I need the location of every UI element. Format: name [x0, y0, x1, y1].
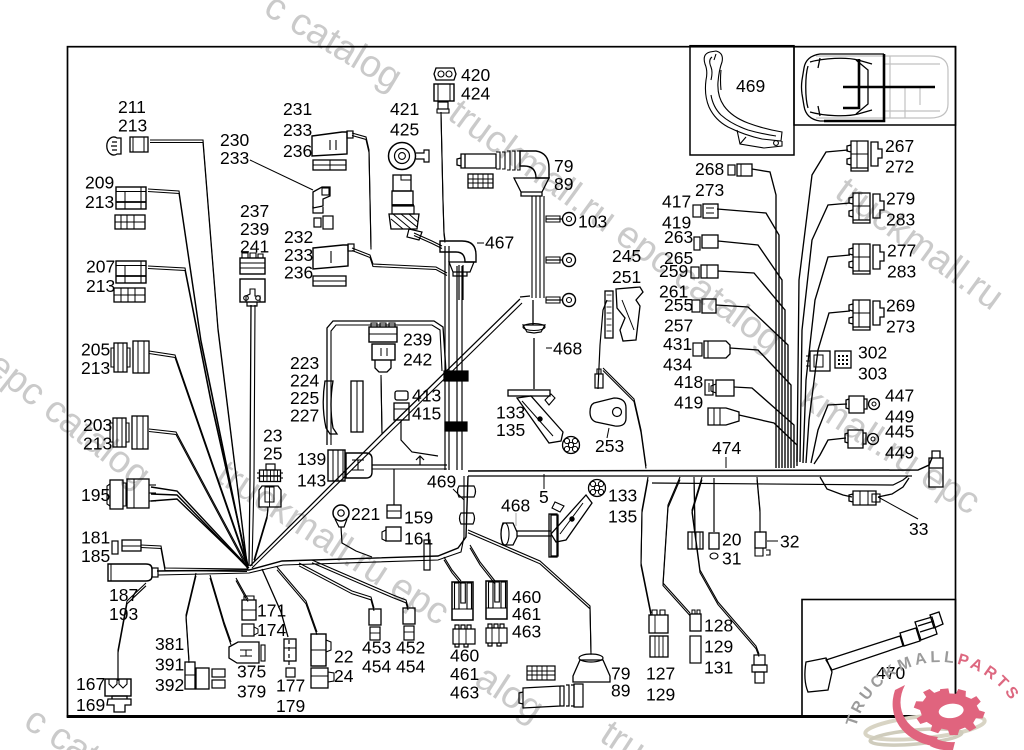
connector 263/265	[694, 237, 700, 250]
connector 161	[386, 527, 401, 541]
svg-text:259: 259	[659, 261, 688, 281]
232 plate	[313, 276, 346, 286]
wire trunk top line	[468, 458, 932, 471]
svg-text:143: 143	[297, 471, 326, 491]
468 lower mount plate 2	[424, 540, 430, 570]
133/135 lower clamp	[551, 495, 592, 542]
421 body	[393, 175, 411, 191]
leader line 468 upper	[546, 347, 552, 349]
421 tip	[407, 229, 422, 240]
svg-text:129: 129	[704, 637, 733, 657]
wire trunk bottom line	[468, 475, 912, 477]
svg-text:79: 79	[554, 156, 573, 176]
coil connector 232/233/236	[313, 245, 348, 269]
svg-text:89: 89	[611, 681, 630, 701]
svg-text:209: 209	[85, 173, 114, 193]
svg-text:169: 169	[76, 695, 105, 715]
svg-text:277: 277	[887, 241, 916, 261]
trunk end connector right	[929, 451, 943, 487]
79/89 funnel top	[514, 178, 549, 196]
harness bulge below trunk junction	[458, 486, 476, 497]
wire 203 harness run (double)	[149, 429, 248, 567]
wire V1 line 1	[448, 246, 450, 470]
svg-text:103: 103	[578, 212, 607, 232]
wire 209 harness run (double)	[148, 189, 247, 564]
main border frame	[68, 47, 956, 717]
svg-text:185: 185	[81, 546, 110, 566]
svg-text:32: 32	[780, 532, 799, 552]
svg-text:213: 213	[85, 192, 114, 212]
133/135 lower wheel	[589, 480, 606, 497]
relay connector 207/213	[116, 261, 146, 283]
wire 468 stem bottom	[533, 338, 535, 389]
wire 7989 bundle 0	[531, 196, 533, 298]
svg-text:213: 213	[118, 116, 147, 136]
svg-text:379: 379	[237, 682, 266, 702]
spark plug cable 470	[805, 612, 943, 692]
svg-text:251: 251	[612, 267, 641, 287]
wire 33 loop	[820, 477, 852, 497]
wire 103 branch1	[546, 218, 562, 220]
wire 445 wire	[814, 438, 846, 464]
79/89 lower funnel	[573, 660, 610, 682]
wire branch left pair	[520, 296, 530, 297]
svg-text:alog: alog	[468, 656, 551, 730]
wire 253 stem	[598, 300, 607, 389]
wire 237 stem	[249, 305, 251, 566]
wire loop wire	[327, 321, 446, 445]
connector 413	[395, 391, 408, 400]
wire drop to 31	[713, 478, 715, 532]
svg-text:253: 253	[595, 436, 624, 456]
wire sensor418 wire	[739, 415, 797, 466]
leader line 5 tick	[543, 474, 545, 489]
svg-text:33: 33	[909, 519, 928, 539]
striped connector 207 aux	[114, 288, 145, 302]
inset box 470 (spark plug cable)	[802, 600, 956, 717]
connector 268/273	[728, 165, 735, 175]
22/24 lower part	[311, 668, 328, 688]
svg-text:463: 463	[450, 683, 479, 703]
svg-text:454: 454	[396, 657, 425, 677]
svg-text:391: 391	[155, 655, 184, 675]
svg-text:227: 227	[290, 406, 319, 426]
svg-text:89: 89	[554, 174, 573, 194]
oxygen sensor plug	[754, 655, 765, 665]
wire 447 wire	[811, 404, 847, 463]
wrap band 2	[445, 422, 467, 431]
wire drop to 375 (double)	[210, 575, 231, 642]
svg-text:135: 135	[608, 507, 637, 527]
svg-text:474: 474	[712, 438, 741, 458]
svg-text:213: 213	[81, 358, 110, 378]
svg-text:375: 375	[237, 662, 266, 682]
svg-text:245: 245	[612, 246, 641, 266]
wire 431 wire	[730, 348, 791, 468]
svg-text:460: 460	[450, 646, 479, 666]
svg-text:230: 230	[220, 130, 249, 150]
anchor clip on 139 arm	[416, 456, 424, 465]
wire 195 pin wire b	[151, 494, 248, 568]
wire 221 stem	[341, 527, 372, 557]
svg-text:421: 421	[390, 99, 419, 119]
svg-text:273: 273	[695, 180, 724, 200]
leader line 32	[767, 540, 778, 542]
wire 181 harness run (double)	[141, 545, 247, 569]
relay connector 209/213	[116, 187, 146, 209]
bracket 253	[590, 398, 626, 426]
wire 279 wire	[800, 203, 850, 462]
svg-text:417: 417	[662, 192, 691, 212]
wire 195 pin wire a	[151, 487, 248, 567]
wire 103 branch2	[546, 259, 562, 261]
truck top view (grey body)	[816, 56, 948, 118]
connector 181/185	[112, 541, 118, 554]
svg-text:454: 454	[362, 657, 391, 677]
133/135 lower plate	[549, 514, 557, 557]
wire 417 wire	[717, 209, 779, 468]
wire 263 wire	[718, 241, 782, 468]
svg-text:279: 279	[886, 189, 915, 209]
svg-text:211: 211	[118, 97, 146, 117]
wire 418 wire	[734, 387, 794, 468]
svg-text:167: 167	[76, 674, 105, 694]
wire V1 line 2	[456, 266, 458, 470]
svg-text:c catalog: c catalog	[257, 0, 409, 99]
wire 23 stem (double)	[254, 507, 268, 560]
sensor below 418/419	[708, 408, 739, 425]
truckmallparts logo	[843, 649, 1023, 750]
leader line 253 tick	[607, 428, 609, 438]
svg-text:303: 303	[858, 364, 887, 384]
ring terminal 221	[333, 505, 349, 521]
connector 417/419	[693, 205, 701, 217]
leader line 33	[878, 497, 918, 519]
plug 20	[688, 532, 703, 549]
420 neck	[438, 102, 448, 109]
connector 128/129/131	[690, 614, 701, 631]
231 plate	[313, 160, 346, 170]
connector 375/379	[229, 642, 259, 663]
connector 23/25	[266, 464, 275, 470]
svg-text:177: 177	[276, 676, 305, 696]
svg-text:135: 135	[496, 420, 525, 440]
svg-text:469: 469	[427, 472, 456, 492]
421 hatched collar	[389, 214, 419, 229]
wire 231 wire (double)	[352, 133, 371, 247]
svg-text:413: 413	[412, 386, 441, 406]
wire drop to 127 (double)	[641, 477, 651, 613]
svg-text:133: 133	[608, 486, 637, 506]
leader line 467	[477, 242, 484, 244]
svg-text:179: 179	[276, 696, 305, 716]
ring terminals 103	[563, 213, 576, 226]
128 sleeve	[690, 636, 701, 663]
wire fan diagonal from 79/89 branch	[250, 299, 520, 566]
connector 171/174	[242, 600, 256, 620]
svg-text:24: 24	[334, 666, 354, 686]
wire drop to 381 (double)	[186, 573, 196, 660]
svg-text:268: 268	[695, 159, 724, 179]
svg-text:468: 468	[501, 496, 530, 516]
svg-text:207: 207	[86, 257, 115, 277]
wire 268 wire	[752, 169, 776, 468]
svg-text:267: 267	[885, 136, 914, 156]
connector 159	[387, 505, 401, 518]
wire drop to 171 (double)	[236, 578, 248, 599]
wire drop to 20 (double)	[694, 477, 695, 530]
connector 445/449	[845, 430, 866, 448]
svg-text:392: 392	[155, 675, 184, 695]
svg-text:445: 445	[885, 422, 914, 442]
svg-text:236: 236	[284, 263, 313, 283]
wire 7989 bundle 2	[539, 196, 541, 298]
wire trunk lower parallel	[652, 476, 908, 485]
svg-text:213: 213	[83, 434, 112, 454]
wire 103 branch3	[546, 299, 562, 301]
svg-text:242: 242	[403, 350, 432, 370]
cylindrical connector 203/213	[113, 418, 126, 447]
wire drop to 22/24 (double)	[277, 567, 317, 632]
connector 33	[849, 491, 876, 505]
connector 22/24 tall	[311, 634, 326, 666]
svg-text:420: 420	[461, 65, 490, 85]
connector 195	[110, 480, 123, 509]
plug 420/424 top cap	[434, 68, 456, 80]
svg-text:463: 463	[512, 622, 541, 642]
svg-text:128: 128	[704, 616, 733, 636]
toothed connector 461 a	[453, 625, 475, 647]
toothed connector 461 b	[486, 624, 507, 646]
svg-text:255: 255	[664, 295, 693, 315]
wire drop to 460 block2 (double)	[470, 545, 495, 581]
253 top connector	[595, 374, 603, 388]
wire 467 stem b	[462, 265, 464, 300]
svg-text:20: 20	[722, 530, 742, 550]
wire lower trunk b	[158, 476, 464, 575]
plug 453/454	[369, 609, 381, 625]
wire drop to 452 (double)	[312, 560, 408, 607]
wire drop to 177	[262, 569, 288, 637]
svg-text:449: 449	[885, 443, 914, 463]
connector 279/283	[849, 193, 884, 223]
wire drop to 128 (double)	[663, 477, 690, 613]
wire 277 wire	[803, 255, 850, 463]
420 body	[434, 84, 454, 101]
leader line 474 tick	[725, 457, 727, 468]
grid box heat shield	[468, 174, 493, 188]
133/135 upper clamp	[517, 396, 563, 443]
svg-text:425: 425	[390, 120, 419, 140]
plug 452/454	[403, 608, 415, 624]
wire lower trunk	[157, 476, 468, 571]
svg-text:159: 159	[404, 508, 433, 528]
connector 447/449	[846, 396, 867, 413]
wire drop to 79/89 funnel (double)	[468, 530, 591, 652]
svg-text:129: 129	[646, 685, 675, 705]
connector 127/129	[649, 615, 668, 633]
wire 232 to bundle (double)	[352, 248, 447, 273]
svg-text:231: 231	[283, 99, 312, 119]
79/89 lower cylinder	[519, 685, 574, 708]
svg-text:31: 31	[722, 549, 741, 569]
wire 205 harness run (double)	[149, 351, 248, 566]
cylindrical connector 205/213	[114, 343, 127, 372]
connector 267/272	[847, 141, 882, 171]
connector 177/179	[284, 639, 296, 661]
133/135 upper wheel	[563, 437, 580, 454]
svg-text:233: 233	[220, 148, 249, 168]
svg-text:181: 181	[81, 528, 110, 548]
wire 207 harness run (double)	[148, 266, 248, 565]
wire drop to O2 (double)	[692, 477, 759, 654]
svg-text:469: 469	[736, 76, 765, 96]
svg-text:257: 257	[664, 316, 693, 336]
connector 167/169	[105, 679, 131, 696]
svg-text:25: 25	[263, 444, 282, 464]
coil connector 231/233/236	[312, 132, 347, 156]
wire 267 wire	[797, 150, 848, 462]
svg-text:467: 467	[485, 233, 514, 253]
wire 195 pin wire c	[151, 499, 249, 568]
wire 413 stem	[401, 421, 438, 456]
svg-text:237: 237	[240, 201, 269, 221]
connector 255/257	[692, 300, 700, 312]
wire 255 wire	[716, 305, 788, 468]
127 striped box	[650, 636, 668, 657]
connector 415	[394, 403, 409, 420]
truck cab outline (black)	[802, 54, 885, 121]
wire 211 harness run (double)	[150, 140, 247, 563]
svg-text:236: 236	[283, 141, 312, 161]
svg-text:203: 203	[83, 415, 112, 435]
connector 211/213	[107, 137, 121, 155]
wire drop to 167/169 (double)	[118, 583, 146, 678]
clamp 169	[107, 696, 131, 712]
striped connector 209 aux	[115, 215, 145, 229]
big connector 460 block1	[452, 582, 473, 620]
plug 32	[755, 532, 766, 548]
svg-text:419: 419	[674, 393, 703, 413]
connector 277/283	[849, 244, 884, 274]
svg-text:171: 171	[257, 601, 286, 621]
sensor 230/233 elbow	[313, 187, 330, 208]
wire fan diagonal b	[252, 303, 522, 568]
connector 259/261	[691, 267, 699, 278]
svg-text:447: 447	[885, 386, 914, 406]
svg-text:195: 195	[81, 485, 110, 505]
ignition coil plug 239/242	[369, 327, 397, 342]
svg-text:239: 239	[403, 330, 432, 350]
wire 33 loop right	[878, 478, 909, 497]
467 funnel	[449, 262, 474, 276]
wire 468 stem top	[532, 300, 534, 325]
wire V1 line 3	[461, 266, 463, 470]
distributor cap 421/425	[389, 143, 416, 170]
svg-text:272: 272	[885, 157, 914, 177]
wire 420 stem (double)	[441, 112, 445, 240]
svg-text:461: 461	[450, 664, 479, 684]
svg-text:302: 302	[858, 343, 887, 363]
svg-text:263: 263	[664, 227, 693, 247]
wire 237 stem b	[252, 305, 255, 566]
svg-text:468: 468	[553, 339, 582, 359]
connector 431/434	[693, 343, 702, 356]
wire drop to 453 (double)	[299, 563, 374, 608]
distributor connector 237/239/241	[240, 258, 265, 274]
inset box 469 (cable guide)	[690, 46, 794, 155]
wire 239 stem (double)	[381, 375, 382, 432]
ignition cable 79/89 upper assembly	[457, 154, 496, 168]
svg-text:283: 283	[887, 262, 916, 282]
connector 187/193 long boot	[108, 564, 152, 581]
svg-text:233: 233	[283, 120, 312, 140]
svg-text:174: 174	[257, 620, 286, 640]
grommet 468 lower assembly	[501, 523, 517, 545]
svg-text:418: 418	[674, 372, 703, 392]
svg-text:431: 431	[663, 334, 692, 354]
wire 159 stem	[393, 469, 395, 505]
svg-text:269: 269	[886, 296, 915, 316]
wire 253 wire to trunk (double)	[603, 368, 646, 466]
elbow 467	[440, 241, 476, 262]
wire loop wire b	[331, 325, 442, 445]
svg-text:213: 213	[86, 276, 115, 296]
svg-text:205: 205	[81, 340, 110, 360]
connector 418/419	[705, 380, 713, 395]
svg-text:22: 22	[334, 647, 353, 667]
svg-text:127: 127	[646, 664, 675, 684]
leader line 468 lower tick	[515, 513, 517, 526]
133/135 upper T-bar	[508, 390, 550, 396]
svg-text:424: 424	[461, 84, 490, 104]
svg-text:161: 161	[404, 529, 433, 549]
wire 7989 bundle 3	[543, 196, 545, 298]
connector 381/391/392	[185, 662, 195, 689]
svg-text:23: 23	[263, 426, 282, 446]
wire 259 wire	[718, 271, 785, 468]
svg-text:221: 221	[351, 504, 380, 524]
svg-text:232: 232	[284, 227, 313, 247]
connector 269/273	[849, 300, 884, 330]
wire drop to 460 block1 (double)	[444, 557, 461, 581]
highlighted harness route in truck	[824, 54, 935, 121]
connector 139/143	[328, 450, 345, 481]
bracket 223/224/225/227	[323, 381, 337, 434]
wire 467 stem	[458, 265, 460, 300]
svg-text:381: 381	[155, 634, 184, 654]
inset box truck location	[794, 47, 956, 125]
connector 302	[810, 351, 830, 371]
wire 139 arm b	[372, 468, 447, 470]
leader line 230/233	[250, 160, 313, 190]
grommet 468 upper funnel	[523, 325, 545, 333]
cable guide 469 drawing	[704, 51, 782, 148]
wire drop to 32 (double)	[757, 477, 760, 530]
wire 269 wire	[806, 311, 850, 463]
svg-text:283: 283	[886, 210, 915, 230]
wire 7989 bundle 1	[535, 196, 537, 298]
big connector 460 block2	[486, 581, 507, 619]
plug 31 body	[709, 533, 719, 549]
79/89 lower grid box	[527, 666, 555, 680]
wrap band 1	[444, 371, 468, 381]
svg-text:139: 139	[297, 449, 326, 469]
svg-text:5: 5	[539, 487, 549, 507]
svg-text:131: 131	[704, 658, 733, 678]
connector 303	[835, 351, 851, 368]
230 plug small	[314, 218, 321, 227]
